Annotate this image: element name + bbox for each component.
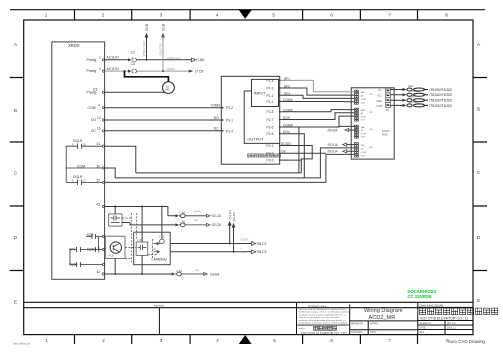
- bottom ruler ticks: [75, 335, 418, 344]
- svg-text:42: 42: [97, 270, 101, 274]
- svg-text:DC30V: DC30V: [241, 239, 249, 242]
- top-right connector P8: [386, 88, 390, 108]
- wire SF2: [281, 88, 355, 95]
- svg-text:CC 110/RDB: CC 110/RDB: [408, 294, 432, 299]
- dashed links: [122, 213, 158, 262]
- wire DC: [105, 130, 222, 132]
- svg-text:Prsetg: Prsetg: [87, 58, 97, 62]
- svg-text:/T8.B2//T8.D2/: /T8.B2//T8.D2/: [429, 104, 452, 108]
- vertical arrow S1.D4 a: [229, 243, 231, 245]
- svg-text:Prsetg: Prsetg: [87, 69, 97, 73]
- wire COM6a: [281, 116, 355, 127]
- svg-text:MO: MO: [165, 88, 170, 92]
- svg-text:the Elevator Congra, CTIS.T.,: the Elevator Congra, CTIS.T., an elevato…: [299, 310, 350, 313]
- wire lambda out row A: [170, 243, 251, 245]
- company name CJK 西子奥的斯电梯有限公司: [420, 308, 498, 315]
- svg-text:P2-6: P2-6: [267, 125, 274, 129]
- svg-text:12: 12: [97, 116, 101, 120]
- svg-text:AC110V: AC110V: [107, 67, 120, 71]
- svg-text:(7.C8: (7.C8: [195, 69, 203, 73]
- pin circles on XRDS right edge: [103, 59, 105, 275]
- svg-text:CHECKED: CHECKED: [351, 332, 363, 334]
- svg-text:P3-2: P3-2: [267, 152, 274, 156]
- svg-text:XIZI OTIS ELEVATOR CO. LTD: XIZI OTIS ELEVATOR CO. LTD: [301, 331, 348, 335]
- svg-text:SCALE 1/1: SCALE 1/1: [420, 322, 432, 325]
- INPUT sub-box: [252, 79, 279, 106]
- svg-text:1: 1: [45, 13, 48, 18]
- vertical link: [65, 146, 67, 182]
- svg-text:1: 1: [45, 338, 48, 343]
- svg-text:P1-4: P1-4: [267, 79, 274, 83]
- svg-text:A: A: [14, 42, 18, 47]
- svg-text:C0: C0: [152, 247, 156, 251]
- wire pin41 row: [105, 207, 176, 216]
- net arrow (S0.B4 into P3 block: [345, 128, 349, 131]
- svg-text:STRS.2: STRS.2: [411, 90, 420, 93]
- svg-text:Wiring Diagram: Wiring Diagram: [364, 308, 403, 314]
- svg-text:VA8: VA8: [361, 126, 366, 129]
- top column ticks: [75, 10, 418, 20]
- svg-text:/S0.B4: /S0.B4: [328, 128, 338, 132]
- svg-text:5: 5: [272, 13, 275, 18]
- wire COM6-return: [136, 116, 355, 173]
- svg-text:VA8: VA8: [361, 109, 366, 112]
- svg-text:OUT: OUT: [361, 102, 366, 104]
- svg-text:EQ.STOP: EQ.STOP: [158, 43, 162, 55]
- svg-text:(P1: (P1: [369, 94, 373, 96]
- svg-text:P2-7: P2-7: [267, 118, 274, 122]
- svg-text:INPUT: INPUT: [254, 90, 267, 95]
- vertical links: [70, 237, 98, 265]
- svg-text:s: s: [241, 247, 243, 250]
- svg-text:are propre to that and the pro: are propre to that and the properted onl…: [299, 313, 347, 316]
- svg-text:DC: DC: [91, 129, 96, 133]
- right row ticks: [473, 78, 487, 271]
- link vertical from pin41 row to C.B2 box: [141, 207, 143, 243]
- svg-text:P2-1: P2-1: [267, 144, 274, 148]
- cap box C.B2 inside lambda: [136, 242, 148, 256]
- svg-text:(7.B6: (7.B6: [196, 58, 204, 62]
- svg-text:DQLR: DQLR: [73, 175, 83, 179]
- wire DOL-: [115, 134, 354, 178]
- svg-text:31: 31: [97, 142, 101, 146]
- connector block P2: [355, 108, 359, 121]
- wire DO9: [281, 113, 355, 120]
- svg-text:C: C: [14, 171, 18, 176]
- left row ticks: [10, 78, 24, 271]
- fold triangle top: [239, 10, 252, 19]
- svg-text:S3.B4: S3.B4: [210, 272, 219, 276]
- left cell: disclaimer paragraph: [299, 305, 350, 330]
- wire 0V: [105, 153, 355, 182]
- vertical arrow S1.D4 b: [233, 251, 235, 253]
- link Q1 bottom to pin42 row: [114, 259, 116, 275]
- wire SF1 (grey): [281, 80, 355, 91]
- transistor Q1: [110, 242, 121, 253]
- svg-text:(S1.D4: (S1.D4: [232, 212, 236, 222]
- svg-text:3: 3: [99, 67, 101, 71]
- svg-text:S8.C2: S8.C2: [257, 242, 267, 246]
- capacitor inside RC1: [111, 216, 121, 223]
- svg-text:SIM3: SIM3: [376, 100, 382, 103]
- wires XRDS to PLC: [105, 108, 222, 131]
- wire COM row: [66, 167, 102, 169]
- svg-text:This work and the information: This work and the information it contain…: [299, 308, 346, 311]
- fuse C.B1 pin42 row: [175, 272, 204, 276]
- svg-text:ST2023: ST2023: [409, 101, 418, 104]
- svg-text:AC8V: AC8V: [376, 105, 383, 108]
- svg-text:41: 41: [97, 202, 101, 206]
- net arrow (S0.D4 b into P4 block: [343, 150, 347, 153]
- svg-text:DQLR: DQLR: [73, 139, 83, 143]
- svg-text:32: 32: [97, 178, 101, 182]
- svg-text:state it a territory writer, n: state it a territory writer, nor has res…: [299, 316, 341, 319]
- capacitor SQ8+ row: [70, 262, 103, 267]
- svg-text:S2.C6: S2.C6: [212, 214, 222, 218]
- wire pin41 to relay coil: [161, 207, 163, 240]
- svg-text:STRS: STRS: [408, 96, 415, 99]
- node junctions pin41 row: [114, 206, 116, 208]
- wire COM3: [105, 107, 222, 109]
- middle cell sub-lines: [350, 321, 418, 330]
- wire pin42 row: [105, 273, 172, 275]
- svg-text:(P3: (P3: [369, 129, 373, 131]
- svg-text:possesion it the patternable d: possesion it the patternable defyveron p…: [299, 319, 348, 322]
- svg-text:senso: senso: [194, 210, 201, 213]
- svg-text:DO: DO: [91, 118, 96, 122]
- svg-text:/T8.B2//T8.D2/: /T8.B2//T8.D2/: [429, 99, 452, 103]
- svg-text:extent: extent: [299, 327, 305, 330]
- svg-text:P3-1: P3-1: [226, 119, 233, 123]
- block pin tiny labels: [361, 91, 374, 158]
- svg-text:4: 4: [98, 104, 100, 108]
- svg-text:undef+mesc: undef+mesc: [167, 56, 182, 60]
- svg-text:OUT: OUT: [361, 156, 366, 158]
- svg-text:8: 8: [445, 13, 448, 18]
- fold triangle bottom: [239, 335, 252, 344]
- switch C2 contacts: [128, 58, 131, 61]
- node junction row1: [146, 59, 148, 61]
- svg-text:XIZI OTIS ELEVATOR CO., Lt: XIZI OTIS ELEVATOR CO., Lt: [420, 317, 468, 321]
- svg-text:P8: P8: [386, 109, 390, 112]
- OUTPUT sub-box: [244, 91, 280, 143]
- OUTPUT pins right: [267, 110, 274, 162]
- svg-text:VA8: VA8: [361, 91, 366, 94]
- svg-text:OUTPUT: OUTPUT: [247, 137, 264, 142]
- svg-text:6: 6: [72, 142, 74, 146]
- bottom band lines: [24, 301, 473, 303]
- svg-text:S1.B: S1.B: [145, 24, 149, 31]
- svg-text:A: A: [477, 42, 481, 47]
- column numbers bottom: [45, 338, 449, 343]
- company name CJK small 西子奥的斯: [314, 326, 337, 330]
- connector block pin contacts: [355, 90, 389, 156]
- svg-text:/T8.B2//T8.D2/: /T8.B2//T8.D2/: [429, 88, 452, 92]
- svg-text:A1: A1: [361, 94, 364, 97]
- svg-text:MX2: MX2: [382, 132, 388, 136]
- svg-text:DWG AAA21302AB: DWG AAA21302AB: [420, 304, 444, 308]
- svg-text:VA8: VA8: [361, 144, 366, 147]
- bus from pin30: [105, 168, 116, 178]
- svg-text:Proprietary notice: Proprietary notice: [308, 305, 327, 308]
- wire SF3: [281, 95, 355, 98]
- wire COM5: [281, 110, 355, 112]
- column numbers top: [45, 13, 449, 18]
- svg-text:DATE :: DATE :: [370, 331, 378, 334]
- svg-text:fuw.sdhlcs.ar: fuw.sdhlcs.ar: [13, 342, 30, 346]
- svg-text:DRAWN BY: DRAWN BY: [351, 322, 364, 325]
- wire row2 AC110V: [105, 36, 191, 71]
- link RC1 top to pin41 row: [114, 207, 116, 214]
- svg-text:DO: DO: [214, 116, 219, 120]
- svg-text:COM: COM: [361, 116, 366, 118]
- switch C3 contacts: [128, 70, 131, 73]
- svg-text:ACD2_MR: ACD2_MR: [369, 315, 396, 321]
- fuse C.B3 row2: [122, 223, 176, 225]
- wire DC30V: [281, 146, 313, 173]
- svg-text:4: 4: [216, 13, 219, 18]
- capacitor DQLR row1: [66, 144, 102, 149]
- fuse C.B3 row1: [179, 214, 206, 218]
- svg-text:AC110V: AC110V: [107, 56, 120, 60]
- svg-text:REF: REF: [420, 332, 425, 334]
- wire P3-3 row: [281, 159, 302, 161]
- svg-text:6: 6: [330, 13, 333, 18]
- svg-text:C-B1: C-B1: [176, 269, 182, 273]
- svg-text:COM: COM: [361, 152, 366, 154]
- svg-text:16: 16: [97, 127, 101, 131]
- svg-text:E: E: [477, 298, 480, 303]
- svg-text:SL2: SL2: [377, 95, 382, 98]
- svg-text:UA8: UA8: [408, 85, 413, 88]
- svg-text:une: une: [195, 269, 200, 272]
- svg-text:P1-1: P1-1: [267, 100, 274, 104]
- svg-text:(P2: (P2: [369, 112, 373, 114]
- connector block P4: [355, 143, 359, 157]
- svg-text:2: 2: [102, 13, 105, 18]
- svg-text:P3-3: P3-3: [267, 159, 274, 163]
- svg-text:namebox: namebox: [154, 303, 165, 307]
- svg-text:C-B3: C-B3: [179, 211, 185, 215]
- svg-text:2003.1.1: 2003.1.1: [447, 327, 457, 329]
- wire row1 AC110V: [105, 59, 192, 61]
- svg-text:D: D: [477, 235, 481, 240]
- svg-text:2: 2: [102, 338, 105, 343]
- net arrow (7.B6: [192, 58, 196, 62]
- svg-text:S8.C3: S8.C3: [257, 250, 267, 254]
- svg-text:XRDS: XRDS: [68, 43, 80, 48]
- svg-text:COM: COM: [361, 134, 366, 136]
- svg-text:P2-8: P2-8: [267, 110, 274, 114]
- thick wire to motor MO: [124, 70, 126, 72]
- svg-text:DC: DC: [214, 127, 219, 131]
- net arrow (S0.D4 a into P4 block: [343, 143, 347, 146]
- svg-text:C-B1: C-B1: [179, 220, 185, 224]
- svg-text:W.MC+TRAC: W.MC+TRAC: [142, 40, 146, 56]
- svg-text:SL: SL: [378, 89, 382, 92]
- INPUT pins: [267, 79, 274, 104]
- svg-text:COM3: COM3: [211, 104, 221, 108]
- capacitor DQLR row2: [66, 180, 102, 185]
- svg-text:4: 4: [216, 338, 219, 343]
- bus from pin31: [105, 146, 136, 173]
- svg-text:6: 6: [330, 338, 333, 343]
- svg-text:SHT 1/3: SHT 1/3: [447, 323, 456, 325]
- controller U1 outer box: [221, 76, 279, 164]
- svg-text:P3-3: P3-3: [226, 129, 233, 133]
- right cell sub-lines: [418, 306, 473, 308]
- svg-text:/T8.B2//T8.D2/: /T8.B2//T8.D2/: [429, 93, 452, 97]
- svg-text:D: D: [14, 235, 18, 240]
- wire row3 Prsetg-D3 to motor: [105, 91, 165, 93]
- svg-text:OUT: OUT: [361, 120, 366, 122]
- svg-text:P2-5: P2-5: [267, 132, 274, 136]
- svg-text:S1: S1: [361, 148, 364, 150]
- svg-text:P1-2: P1-2: [267, 94, 274, 98]
- svg-text:/S0.D4: /S0.D4: [328, 143, 338, 147]
- svg-text:P1-3: P1-3: [267, 87, 274, 91]
- connector block P3: [355, 125, 359, 138]
- green stamp text: [408, 289, 437, 299]
- svg-text:C3: C3: [131, 62, 135, 66]
- svg-text:30: 30: [83, 142, 86, 146]
- breaker symbols: [407, 88, 428, 107]
- svg-text:S2.C6: S2.C6: [212, 223, 222, 227]
- svg-text:Auto CAD Drawing: Auto CAD Drawing: [448, 339, 485, 344]
- capacitor contacts inside XRDS: [66, 142, 102, 267]
- wire C.B2 to pin42 row: [141, 256, 143, 275]
- top ruler line: [10, 9, 485, 11]
- row letters: [14, 42, 481, 305]
- svg-text:LAMBDA/I: LAMBDA/I: [152, 258, 168, 262]
- connector block P1: [355, 90, 359, 157]
- arrow up S1.B left: [146, 36, 148, 60]
- connector XRDS: [52, 42, 105, 279]
- svg-text:S1.B: S1.B: [161, 24, 165, 31]
- LAMBDA module box: [134, 232, 171, 265]
- svg-text:APPRD :: APPRD :: [370, 322, 380, 325]
- svg-text:C.b2: C.b2: [159, 235, 165, 239]
- svg-text:3: 3: [160, 338, 163, 343]
- wire DO: [105, 119, 222, 121]
- svg-text:B: B: [14, 108, 17, 113]
- svg-text:/S0.D4: /S0.D4: [328, 150, 338, 154]
- wire lambda out row B: [170, 251, 251, 253]
- svg-text:COM: COM: [361, 99, 366, 101]
- capacitor SP0/SQ20 row: [70, 247, 103, 252]
- svg-text:COM: COM: [88, 106, 96, 110]
- svg-text:5: 5: [273, 338, 276, 343]
- wire COM4: [281, 101, 355, 103]
- svg-text:D3: D3: [93, 87, 97, 91]
- label CJK 门机变频器控制端子: [247, 154, 280, 157]
- capacitor SQ8 row: [86, 234, 103, 239]
- svg-text:(P4: (P4: [369, 147, 373, 149]
- svg-text:C: C: [477, 170, 481, 175]
- PLC left pins: [222, 107, 224, 132]
- connector board J1: [351, 88, 394, 159]
- svg-text:C2: C2: [131, 50, 135, 54]
- inner frame: [24, 20, 473, 335]
- svg-text:7: 7: [388, 13, 391, 18]
- svg-text:1: 1: [99, 56, 101, 60]
- svg-text:P3-2: P3-2: [226, 106, 233, 110]
- svg-text:writed claims and owner, expir: writed claims and owner, expires a US's …: [299, 322, 348, 325]
- svg-text:saw: saw: [194, 219, 199, 222]
- svg-text:3: 3: [160, 13, 163, 18]
- svg-text:7: 7: [388, 338, 391, 343]
- svg-text:OUT: OUT: [361, 137, 366, 139]
- svg-text:200Hrs: 200Hrs: [167, 67, 176, 71]
- svg-text:B: B: [477, 107, 480, 112]
- motor MO: [163, 82, 175, 94]
- svg-text:E: E: [14, 300, 17, 305]
- svg-text:DATE: DATE: [420, 326, 426, 329]
- snubber box RC1: [109, 214, 122, 226]
- transistor box Q1: [105, 236, 125, 258]
- svg-text:S1: S1: [361, 130, 364, 132]
- svg-text:PQ8: PQ8: [109, 253, 115, 257]
- board name text: [382, 129, 390, 136]
- svg-text:A1: A1: [361, 112, 364, 115]
